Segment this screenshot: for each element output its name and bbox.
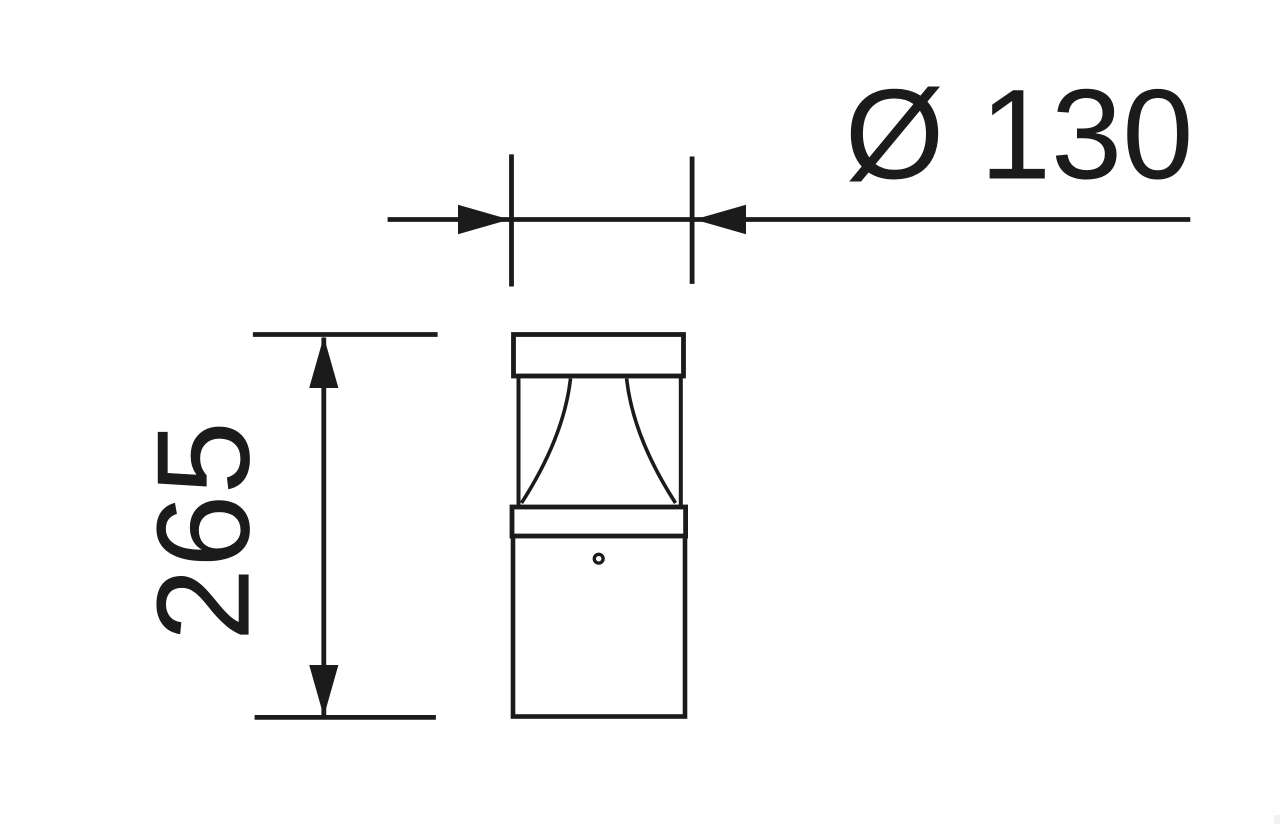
bollard body	[513, 536, 685, 716]
top dimension horizontal line	[388, 217, 1191, 222]
top dimension right extension line	[690, 157, 695, 284]
left dimension bottom extension line	[255, 715, 436, 720]
bollard top cap	[514, 335, 684, 377]
corner artifact bottom-right	[1274, 815, 1280, 824]
bollard lamp chamber right wall	[679, 378, 683, 505]
top dimension left extension line	[509, 154, 514, 286]
svg-text:Ø 130: Ø 130	[845, 64, 1194, 207]
arrowhead pointing right (top dim, at left ext line)	[458, 205, 510, 234]
reflector right curve	[627, 379, 676, 504]
left dimension vertical line	[321, 338, 326, 716]
bollard lamp chamber left wall	[517, 378, 521, 505]
left dimension top extension line	[253, 332, 438, 337]
arrowhead pointing up (left dim)	[309, 337, 338, 389]
svg-text:265: 265	[130, 421, 277, 641]
arrowhead pointing left (top dim, at right ext line)	[695, 205, 747, 234]
reflector left curve	[522, 379, 571, 504]
screw on body	[594, 554, 603, 563]
arrowhead pointing down (left dim)	[309, 665, 338, 717]
bollard middle band	[512, 507, 686, 536]
